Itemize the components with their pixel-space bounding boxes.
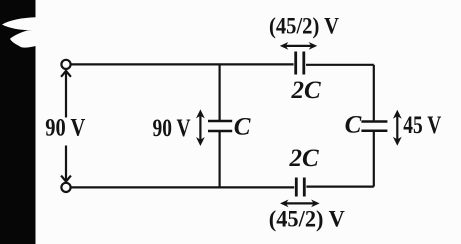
svg-text:C: C [345,112,362,139]
svg-text:90 V: 90 V [153,115,191,142]
svg-text:2C: 2C [291,77,322,104]
svg-text:C: C [234,113,251,140]
svg-text:(45/2) V: (45/2) V [269,207,345,232]
svg-text:45 V: 45 V [403,112,441,139]
svg-text:2C: 2C [289,145,320,172]
svg-text:90 V: 90 V [45,114,85,141]
svg-text:(45/2) V: (45/2) V [269,14,339,39]
